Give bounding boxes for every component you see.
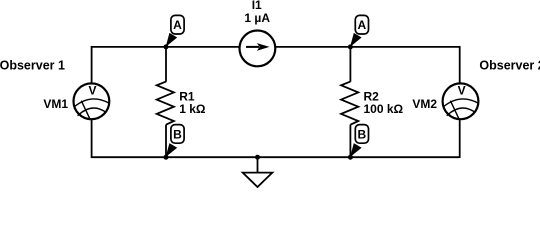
voltmeter VM1 [74,83,110,120]
node B tag at R1 bottom [166,125,184,157]
junction dot node B left [164,155,169,160]
svg-text:B: B [357,127,366,141]
wire R1 branch lower [165,125,167,158]
resistor R2 [341,82,358,125]
svg-text:VM1: VM1 [43,97,68,111]
svg-text:100 kΩ: 100 kΩ [364,102,404,116]
svg-text:A: A [173,18,182,32]
junction dot node B right [348,155,353,160]
svg-text:1 kΩ: 1 kΩ [179,102,206,116]
svg-text:R1: R1 [179,89,195,103]
node B tag at R2 bottom [350,125,368,157]
voltmeter VM2 [443,83,479,120]
svg-text:Observer 2: Observer 2 [479,59,540,73]
junction dot ground [255,155,260,160]
svg-text:Observer 1: Observer 1 [0,59,65,73]
svg-text:A: A [357,18,366,32]
wire R2 branch upper [349,47,351,82]
wire R2 branch lower [349,125,351,158]
ground [243,157,273,187]
wire right vertical [459,46,461,158]
junction dot node A right [348,44,353,49]
svg-text:R2: R2 [364,89,380,103]
svg-text:1 µA: 1 µA [244,11,270,25]
node A tag at R2 top [350,15,368,47]
svg-text:V: V [458,84,466,98]
wire top horizontal [92,46,460,48]
node A tag at R1 top [166,15,184,47]
svg-text:VM2: VM2 [412,97,437,111]
wire bottom horizontal [92,156,460,158]
wire R1 branch upper [165,47,167,82]
svg-text:B: B [173,127,182,141]
resistor R1 [157,82,174,125]
svg-text:V: V [88,84,96,98]
current source I1 [240,31,276,67]
junction dot node A left [164,44,169,49]
wire left vertical [91,46,93,158]
